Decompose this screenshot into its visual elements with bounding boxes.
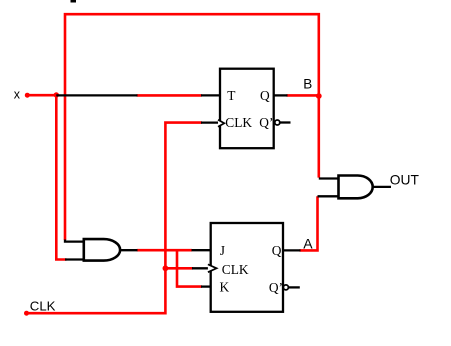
svg-text:Q’: Q’ xyxy=(259,115,273,130)
svg-text:B: B xyxy=(303,77,312,92)
svg-text:CLK: CLK xyxy=(222,262,249,277)
svg-text:T: T xyxy=(227,88,235,103)
svg-text:OUT: OUT xyxy=(390,172,420,187)
svg-text:A: A xyxy=(303,235,313,251)
svg-text:Q’: Q’ xyxy=(269,280,283,295)
svg-text:J: J xyxy=(220,243,225,258)
svg-text:x: x xyxy=(14,88,21,102)
svg-text:K: K xyxy=(220,279,230,294)
svg-text:CLK: CLK xyxy=(30,299,56,314)
svg-text:Q: Q xyxy=(272,243,282,258)
svg-text:CLK: CLK xyxy=(225,115,252,130)
svg-text:Q: Q xyxy=(260,88,270,103)
